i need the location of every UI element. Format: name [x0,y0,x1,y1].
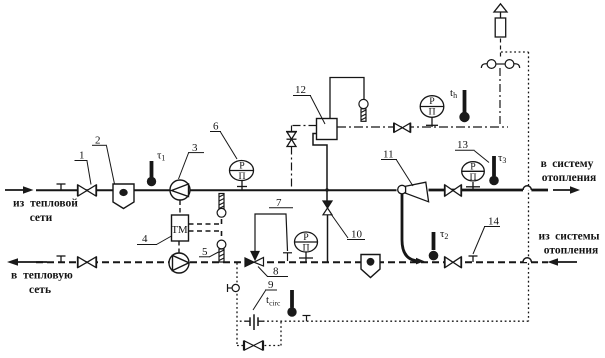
svg-text:8: 8 [273,266,279,278]
svg-text:14: 14 [488,216,500,228]
svg-text:в тепловую: в тепловую [11,270,73,282]
wire thick elevator suction curve [402,194,420,262]
wire dotted circulation line [237,320,529,322]
thermometer t_h [450,87,470,122]
svg-text:7: 7 [276,197,282,209]
wire dash-dot impulse line valve to supply [291,147,293,191]
svg-text:сеть: сеть [29,284,51,296]
regulator valve with cap on impulse line [286,132,297,147]
valve on dash-dot line [394,123,411,133]
wire dashed TM lower tap to sensor 5 [189,231,222,240]
gauge 13 (P/Pi manometer) [462,161,485,190]
safety device rectangle [495,18,506,37]
heat meter box 4 (TM) [171,215,188,241]
svg-text:ТМ: ТМ [171,224,188,236]
svg-text:4: 4 [142,233,148,245]
label 4 [137,233,172,245]
drain tap on supply line [57,184,66,190]
wire return outlet arrow [7,258,47,266]
drain tap on return line left [57,256,66,262]
drain tap right of valve 14 [469,256,478,262]
wire supply outlet arrow [553,186,580,194]
wire dashed link sensor3 to TM [179,201,181,216]
wire step link from regulator 12 down to supply line [313,134,327,191]
wire dash-dot regulator 12 to capped valve [292,126,317,132]
svg-text:τ1: τ1 [157,150,165,163]
valve after ejector on supply [445,185,462,197]
label 11 [381,149,413,187]
wire dotted boundary right edge [528,52,530,321]
svg-text:Р: Р [303,232,309,243]
label 8 [258,266,288,278]
svg-text:Р: Р [239,161,245,172]
orifice 9 (restriction plates) [246,314,263,330]
label 14 [473,216,500,255]
temp sensor 5 on return (circle and stick) [217,240,226,262]
label 7 [269,197,293,209]
svg-text:Р: Р [470,161,476,172]
temp sensor on supply (stick and circle) [217,194,226,218]
three-way valve 8 [245,258,264,267]
wire dashed link TM to return flow sensor [178,241,180,253]
node: text "из системы отопления" [538,231,599,257]
svg-text:П: П [302,243,309,254]
svg-text:отопления: отопления [542,172,597,184]
svg-text:Р: Р [429,96,435,107]
svg-text:τ3: τ3 [498,152,506,165]
valve 10 (supply-return jumper valve) [323,201,332,215]
gauge t_h (P/Pi manometer) [420,96,444,127]
svg-text:12: 12 [295,84,306,96]
wire return inlet arrow [548,258,578,266]
svg-text:10: 10 [351,229,363,241]
svg-text:П: П [469,172,476,183]
wire regulator 12 top sensing loop [330,78,364,119]
svg-text:в систему: в систему [541,158,594,170]
label 2 [92,135,115,185]
svg-text:П: П [428,107,435,118]
svg-text:11: 11 [383,149,394,161]
dirt trap on return [361,255,380,278]
wire dash-dot vertical to make-up assembly [499,68,501,126]
label 5 [199,246,219,258]
ejector 11 mixing circle [398,185,407,194]
label 9 [253,279,277,310]
label 3 [179,142,205,179]
wire dotted bottom bypass [237,321,281,345]
wire dotted boundary top edge [501,51,529,53]
vent triangle [494,4,507,12]
svg-text:1: 1 [79,150,85,162]
solenoid / make-up device (two circles) [481,60,519,69]
wire return line dashed [36,261,548,263]
node: text "из тепловой сети" [13,198,78,225]
label 13 [455,139,489,163]
bracket 7 impulse lines [251,214,292,261]
wire thick mixed-water supply line [429,189,549,192]
gauge on return (P/Pi manometer) [295,232,318,262]
drain cock on dotted drop [228,284,240,292]
svg-text:13: 13 [457,139,469,151]
wire supply inlet arrow [5,186,34,194]
gauge 6 (P/Pi manometer) [230,161,254,191]
label 6 [210,121,237,160]
svg-text:отопления: отопления [544,245,599,257]
svg-text:9: 9 [268,279,274,291]
node: text "в систему отопления" [541,158,597,184]
flow sensor 3 [170,180,190,200]
return flow sensor [169,253,189,273]
drain tap on circulation line [303,316,311,322]
wire from supply junction down to valve 10 [326,190,328,201]
thermometer tau2 [429,228,449,260]
wire dash-dot from regulator 12 to hot water line right [337,126,508,128]
label 10 [331,214,365,241]
thermometer t_circ [266,290,297,317]
svg-text:из системы: из системы [538,231,599,243]
dirt trap 2 [113,184,134,209]
wire dotted drop from return line [236,263,238,346]
ejector 11 cone [406,182,429,202]
svg-text:th: th [450,87,457,100]
valve on return to network [78,257,97,269]
svg-text:П: П [238,171,245,182]
hump on return line at boundary crossing [523,258,531,262]
label 12 [293,84,325,124]
svg-text:сети: сети [30,212,53,224]
valve 1 [78,185,97,197]
svg-text:5: 5 [202,246,208,258]
hump on supply line at boundary crossing [523,186,531,190]
wire supply main line [36,189,397,191]
node: text "в тепловую сеть" [11,270,73,297]
wire valve 10 down to return line [327,215,329,262]
regulator box 12 [317,119,338,140]
svg-text:6: 6 [213,121,219,133]
label 1 [75,150,92,185]
svg-text:τ2: τ2 [440,228,448,241]
wire dashed TM upper tap to supply temp sensor [189,217,222,224]
svg-text:tcirc: tcirc [266,294,281,308]
temp bulb sensor of regulator 12 [359,99,368,121]
thermometer tau1 [147,150,166,187]
wire rect to vent triangle [500,12,502,18]
bypass valve [244,341,264,351]
thermometer tau3 [489,152,506,185]
svg-text:из тепловой: из тепловой [13,198,78,210]
valve 14 [445,257,462,269]
svg-text:2: 2 [95,135,101,147]
wire dashes above make-up device [500,39,502,60]
